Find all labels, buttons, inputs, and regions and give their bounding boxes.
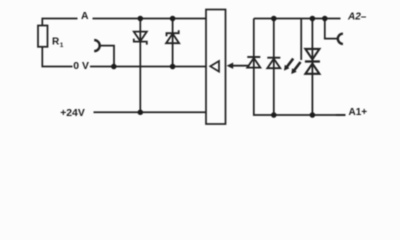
op-amp U1 triangle (pointing left) (210, 61, 219, 72)
node: bottom line / D4 (271, 112, 277, 118)
svg-text:0 V: 0 V (73, 61, 89, 72)
light arrow from LED into amplifier (227, 63, 250, 69)
zener diode D1 vertical wire (A line to +24V line) (139, 19, 141, 113)
node: A line / D2 (170, 16, 176, 22)
wire: +24V line to isolation box (94, 111, 207, 113)
diode D4 vertical wire (top line to bottom line) (273, 19, 275, 116)
svg-text:A1+: A1+ (349, 107, 368, 118)
optocoupler LED D3 symbol on left rail (cathode up) (247, 57, 260, 68)
socket X2 fork (opening right) (338, 34, 343, 44)
zener diode D2 vertical wire (A line to 0V line) (172, 19, 174, 67)
socket X1 (test tap fork) (94, 40, 100, 51)
node: top line / X2 tap (322, 16, 328, 22)
node: bottom line / TVS (310, 112, 316, 118)
node: +24V / D1 (138, 110, 144, 116)
TVS suppressor D5 vertical wire (311, 19, 313, 116)
surge arrow 1 (flash toward LED) (284, 58, 294, 71)
zener diode D1 symbol (cathode down) (134, 32, 147, 45)
resistor R1 body (38, 26, 48, 47)
wire: from socket X1 right then down to 0V (100, 46, 114, 67)
node: 0V / X1 tap (111, 64, 117, 70)
node: A line / D1 (138, 16, 144, 22)
wire: right network left rail (top corner to bottom corner) (254, 19, 346, 116)
wire: input A line left segment with corner down to R1 (42, 19, 77, 26)
wire: stub before terminal label A1+ (336, 114, 346, 116)
wire: tap from top line down and right to socket X2 (325, 19, 338, 39)
svg-text:A2–: A2– (347, 12, 367, 23)
svg-text:+24V: +24V (60, 108, 85, 119)
node: top line / TVS (310, 16, 316, 22)
wire: 0V line left segment with corner up to R1 bottom (42, 47, 72, 67)
svg-text:1: 1 (60, 42, 64, 49)
TVS suppressor D5 symbol (two filled triangles tip to tip) (305, 49, 320, 74)
node: 0V / D2 (170, 64, 176, 70)
isolation amplifier box U1 (206, 10, 226, 125)
zener diode D2 symbol (cathode up) (166, 30, 179, 43)
wire: 0V line right segment to isolation box (90, 66, 206, 68)
junction dots (111, 16, 327, 118)
surge arrow wire from top line (300, 19, 302, 61)
node: top line / D4 (271, 16, 277, 22)
surge arrow 2 (flash toward LED) (291, 61, 301, 74)
svg-text:A: A (81, 11, 89, 22)
wire: input A line right segment to isolation box (93, 18, 207, 20)
wire: right network top line to terminal A2- (254, 18, 341, 20)
diode D4 symbol (cathode up) (267, 58, 280, 68)
